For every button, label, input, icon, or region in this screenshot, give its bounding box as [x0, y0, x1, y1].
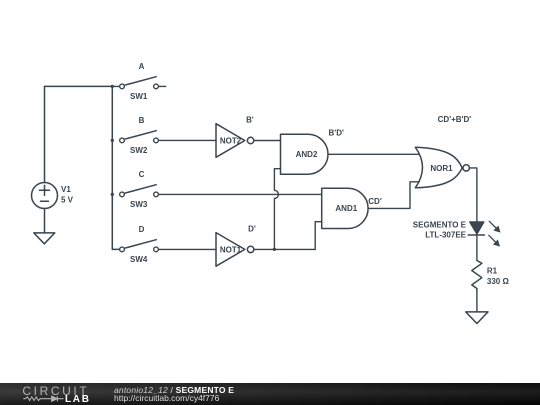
- voltage source V1: [32, 183, 58, 209]
- svg-text:SW1: SW1: [130, 92, 148, 101]
- nor-gate NOR1: [415, 147, 469, 188]
- svg-text:B: B: [139, 116, 145, 125]
- svg-text:SW3: SW3: [130, 200, 148, 209]
- footer bar: [0, 383, 540, 405]
- wire NOT1 out (net D'): [254, 248, 315, 250]
- svg-text:D: D: [139, 225, 145, 234]
- wire NOR1 out down to LED: [469, 168, 477, 222]
- LED D1 SEGMENTO E: [468, 222, 484, 235]
- and-gate AND2: [281, 134, 329, 174]
- wire D' up to AND2 lower input with hop over C: [274, 169, 280, 250]
- footer credit line 2: [114, 394, 219, 403]
- svg-text:C: C: [139, 170, 145, 179]
- wire V1 top to bus: [45, 85, 113, 87]
- LED light arrow 2: [489, 235, 500, 246]
- svg-text:B': B': [246, 116, 254, 125]
- footer credit line 1: [114, 386, 234, 395]
- and-gate AND1: [322, 188, 368, 228]
- svg-text:B'D': B'D': [329, 128, 344, 137]
- node bus-SW1: [111, 85, 114, 88]
- svg-text:SEGMENTO E: SEGMENTO E: [413, 220, 467, 229]
- svg-text:R1: R1: [487, 267, 498, 276]
- wire SW3 to AND1 input (net C): [159, 193, 322, 195]
- svg-text:AND2: AND2: [296, 150, 318, 159]
- svg-text:NOT2: NOT2: [220, 137, 242, 146]
- ground V1: [34, 233, 55, 244]
- svg-text:V1: V1: [61, 185, 71, 194]
- inverter NOT1: [216, 233, 254, 267]
- ground at R1: [466, 312, 488, 324]
- switch SW3: [120, 185, 159, 197]
- svg-text:SW2: SW2: [130, 146, 148, 155]
- node bus-SW2: [111, 139, 114, 142]
- node bus-SW3: [111, 193, 114, 196]
- svg-text:SW4: SW4: [130, 255, 148, 264]
- wire NOT2 out to AND2 (net B'): [254, 140, 281, 142]
- svg-text:CD': CD': [368, 197, 382, 206]
- wire V1 bottom: [44, 209, 46, 233]
- switch SW2: [120, 131, 159, 143]
- CircuitLab logo circuit line (resistor + diode): [0, 383, 110, 405]
- svg-text:A: A: [139, 62, 145, 71]
- wire V1 vertical lead: [44, 86, 46, 182]
- svg-text:NOR1: NOR1: [430, 164, 453, 173]
- wire D' step to AND1 lower input: [315, 222, 322, 250]
- svg-text:NOT1: NOT1: [220, 246, 242, 255]
- svg-text:5 V: 5 V: [61, 195, 74, 204]
- switch SW1: [112, 77, 165, 89]
- CircuitLab logo wordmark: [22, 386, 89, 396]
- wire SW4 to NOT1: [159, 248, 216, 250]
- node D' junction: [273, 248, 276, 251]
- svg-text:LTL-307EE: LTL-307EE: [425, 230, 466, 239]
- svg-text:330 Ω: 330 Ω: [487, 277, 510, 286]
- svg-text:CD'+B'D': CD'+B'D': [438, 115, 472, 124]
- wire bus vertical: [112, 86, 119, 249]
- LED light arrow 1: [489, 221, 500, 232]
- inverter NOT2: [216, 124, 254, 158]
- wire R1 to ground: [476, 291, 478, 312]
- svg-text:D': D': [248, 225, 256, 234]
- wire SW2 to NOT2: [159, 139, 216, 141]
- resistor R1: [472, 261, 482, 291]
- wire AND2 out to NOR1 (net B'D'): [328, 153, 419, 155]
- wire AND1 out to NOR1 (net CD'): [368, 182, 419, 209]
- svg-text:AND1: AND1: [335, 204, 357, 213]
- label R1: [487, 267, 510, 287]
- switch SW4: [120, 240, 159, 252]
- label V1 value: [61, 185, 74, 204]
- wire LED to R1: [476, 235, 478, 260]
